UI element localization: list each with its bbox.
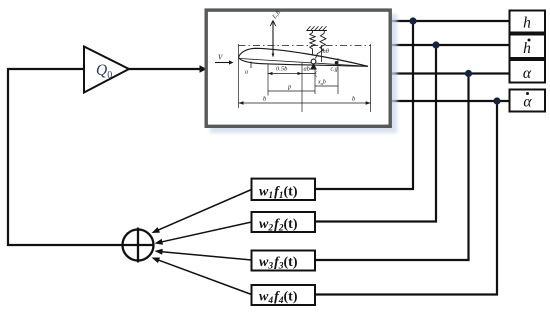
svg-text:w3f3(t): w3f3(t) (259, 255, 298, 272)
svg-text:ab: ab (304, 66, 311, 73)
svg-text:α: α (523, 65, 532, 82)
svg-text:w4f4(t): w4f4(t) (259, 289, 298, 306)
svg-text:h: h (523, 15, 531, 32)
svg-text:hθ: hθ (323, 48, 330, 55)
svg-text:c.g: c.g (331, 67, 338, 73)
svg-text:a: a (245, 70, 248, 76)
svg-text:w1f1(t): w1f1(t) (259, 185, 298, 202)
svg-text:V: V (218, 54, 223, 62)
svg-text:xab: xab (317, 80, 326, 87)
svg-text:w2f2(t): w2f2(t) (259, 217, 298, 234)
svg-text:α: α (523, 94, 532, 111)
svg-text:ξ: ξ (315, 71, 318, 78)
svg-text:0.5b: 0.5b (276, 66, 288, 73)
svg-text:h: h (523, 40, 531, 57)
